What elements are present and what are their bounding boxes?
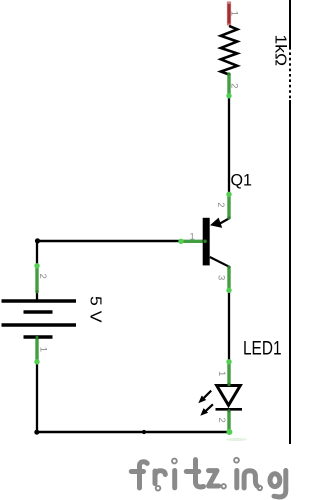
svg-text:1kΩ: 1kΩ — [272, 35, 289, 67]
svg-text:Q1: Q1 — [231, 171, 253, 190]
svg-text:3: 3 — [216, 275, 227, 280]
svg-text:2: 2 — [229, 83, 240, 88]
svg-text:LED1: LED1 — [243, 339, 282, 360]
svg-text:2: 2 — [216, 418, 227, 423]
svg-text:1: 1 — [37, 347, 48, 352]
svg-text:1: 1 — [216, 371, 227, 376]
svg-text:2: 2 — [37, 274, 48, 279]
svg-text:5 V: 5 V — [87, 296, 104, 323]
svg-text:1: 1 — [190, 231, 195, 242]
svg-text:1: 1 — [229, 11, 240, 16]
svg-text:2: 2 — [215, 202, 226, 207]
